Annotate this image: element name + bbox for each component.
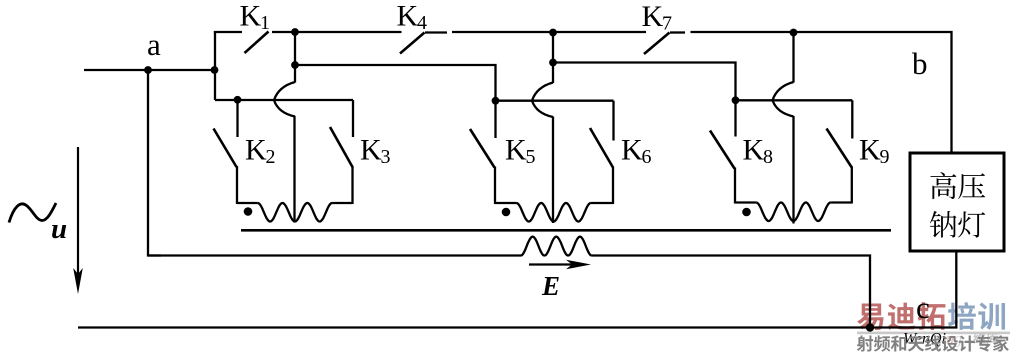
watermark text 培训 blue (948, 302, 976, 330)
node a junction dot (144, 66, 152, 74)
winding T3 left bracket (735, 201, 756, 203)
winding T2 left bracket (495, 202, 516, 204)
switch K5 bottom terminal (494, 167, 496, 205)
winding T1 right bracket (332, 202, 352, 204)
junction dot interstage bus cell2 (549, 59, 557, 67)
lamp text line2 钠灯 (930, 211, 957, 238)
wire top bus K1 to K4 (272, 31, 402, 33)
svg-text:8: 8 (763, 146, 773, 168)
switch K2 bottom terminal (236, 166, 238, 204)
switch K2 blade (214, 129, 237, 168)
arrow E direction (529, 260, 591, 270)
polarity dot T3 (742, 208, 751, 217)
winding E coil (521, 237, 592, 256)
svg-text:K: K (505, 134, 527, 167)
wire secondary left segment (148, 254, 521, 256)
watermark text 易迪拓 red (857, 304, 883, 331)
switch K2 top terminal (236, 100, 238, 137)
watermark text 射频和天线设计专家 gray (857, 335, 873, 351)
wire node a to K1 left vertical (148, 69, 215, 71)
polarity dot T1 (244, 207, 253, 216)
svg-text:u: u (51, 213, 67, 245)
wire cell2 center vertical lower (552, 117, 554, 224)
svg-text:1: 1 (260, 12, 270, 34)
junction dot node c area (866, 323, 874, 331)
svg-text:K: K (240, 0, 262, 33)
watermark underline band (857, 332, 1010, 335)
junction dot at K1 left vertical (211, 66, 219, 74)
svg-text:c: c (916, 290, 930, 325)
switch K5 blade (470, 129, 495, 168)
polarity dot T2 (502, 208, 511, 217)
wire crossover hop cell3 (773, 82, 794, 117)
wire top bus K7 to node b corner (691, 32, 952, 153)
switch K5 top terminal (494, 101, 496, 138)
wire interstage bus cell2 to cell3 (553, 63, 736, 101)
wire secondary right segment (592, 256, 870, 328)
svg-text:K: K (743, 134, 765, 167)
junction dot K8 top (732, 96, 740, 104)
svg-text:4: 4 (417, 12, 427, 34)
junction dot top bus cell1 right (291, 28, 299, 36)
switch K3 blade (330, 127, 353, 167)
wire lamp bottom to bus (955, 251, 957, 328)
wire crossover hop cell2 (532, 83, 553, 118)
svg-text:E: E (541, 271, 560, 301)
svg-text:K: K (360, 134, 382, 167)
junction dot K5 top (492, 97, 500, 105)
switch K9 bottom terminal (851, 167, 853, 204)
wire node a down to secondary line (148, 70, 161, 256)
switch K8 blade (710, 131, 735, 169)
wire source top to node a (84, 69, 148, 71)
wire cell3 local horizontal (736, 99, 853, 101)
svg-text:K: K (642, 0, 664, 33)
lamp text line1 高压 (930, 172, 956, 199)
switch K9 top terminal (851, 100, 853, 138)
wire top bus segment before K1 (214, 31, 242, 33)
wire cell1 center vertical upper (294, 32, 296, 83)
svg-text:K: K (245, 134, 267, 167)
junction dot secondary-bus start (291, 61, 299, 69)
wire cell3 center vertical lower (792, 116, 794, 224)
junction dot top bus cell3 (790, 29, 798, 37)
transformer core line (241, 229, 891, 232)
wire top bus K4 to K7 (452, 31, 646, 33)
switch K7 blade (644, 33, 670, 55)
wire top bus K4 stub (425, 31, 447, 33)
switch K6 blade (590, 128, 613, 168)
svg-text:6: 6 (642, 146, 652, 168)
wire cell3 center vertical upper (792, 32, 794, 83)
switch K6 bottom terminal (612, 167, 614, 205)
svg-text:K: K (859, 134, 881, 167)
svg-text:5: 5 (526, 146, 536, 168)
svg-text:7: 7 (662, 13, 672, 35)
wire cell2 local horizontal (496, 100, 614, 102)
wire K1 left vertical (214, 31, 216, 100)
wire crossover hop cell1 (274, 82, 295, 117)
AC source symbol ~ (9, 203, 56, 223)
wire cell1 center vertical lower (293, 116, 295, 223)
svg-text:3: 3 (381, 146, 391, 168)
wire bottom bus (78, 326, 958, 328)
svg-text:K: K (621, 134, 643, 167)
svg-text:a: a (147, 27, 161, 62)
winding T2 right bracket (591, 202, 613, 204)
svg-text:b: b (912, 46, 928, 81)
switch K1 blade (245, 32, 269, 54)
switch K6 top terminal (612, 101, 614, 141)
switch K8 top terminal (734, 100, 736, 136)
svg-text:K: K (397, 0, 419, 33)
switch K3 top terminal (352, 100, 354, 137)
junction dot top bus cell2 (549, 29, 557, 37)
svg-text:2: 2 (266, 146, 276, 168)
svg-text:9: 9 (880, 146, 890, 168)
winding T3 coil (756, 203, 830, 222)
svg-text:WenQing: WenQing (903, 331, 962, 348)
junction dot K2 top (234, 96, 242, 104)
wire top bus K7 stub (670, 31, 685, 33)
switch K4 blade (400, 33, 425, 54)
winding T1 coil (258, 203, 332, 222)
lamp box 高压钠灯 (910, 153, 1004, 251)
switch K3 bottom terminal (351, 166, 353, 204)
winding T3 right bracket (831, 201, 852, 203)
wire cell1 local horizontal (215, 99, 353, 101)
watermark text 维库 light gray (973, 332, 985, 344)
switch K8 bottom terminal (734, 168, 736, 204)
winding T2 coil (516, 203, 590, 222)
wire interstage bus cell1 to cell2 (295, 65, 496, 101)
switch K9 blade (827, 129, 852, 168)
wire cell2 center vertical upper (552, 32, 554, 83)
voltage direction arrow (73, 147, 83, 294)
winding T1 left bracket (237, 202, 258, 204)
